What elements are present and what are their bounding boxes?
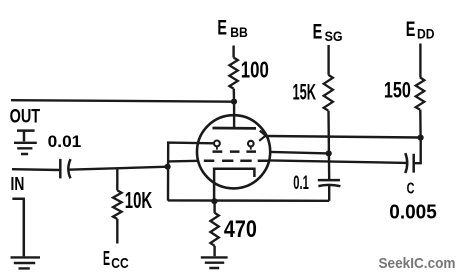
label EDD (406, 18, 435, 41)
svg-text:0.005: 0.005 (389, 201, 437, 224)
IN terminal bar (12, 199, 25, 256)
svg-text:470: 470 (224, 216, 257, 243)
resistor 150 (416, 77, 425, 109)
svg-text:0.1: 0.1 (293, 173, 309, 194)
wire resistor100 to junction (233, 89, 236, 102)
wire EBB lead (232, 46, 234, 58)
ground under 470 (201, 257, 228, 268)
wire OUT line (top horizontal) (11, 100, 234, 102)
svg-text:E: E (406, 18, 416, 41)
svg-text:OUT: OUT (10, 106, 41, 127)
ground IN (11, 257, 41, 268)
svg-text:SeekIC.com: SeekIC.com (379, 255, 456, 272)
resistor 470 (213, 201, 215, 213)
pin circle right (248, 141, 254, 147)
node plate/EBB junction (231, 99, 237, 105)
svg-text:C: C (407, 181, 415, 198)
resistor 10K (116, 168, 118, 190)
svg-text:100: 100 (241, 56, 269, 82)
node cathode junction (211, 198, 217, 204)
wire grid2 left exit (168, 160, 198, 163)
node grid junction (165, 164, 171, 170)
resistor 100 (229, 58, 237, 89)
wire ESG lead (327, 45, 329, 75)
wire grid1 lead (168, 143, 214, 201)
svg-text:BB: BB (230, 24, 248, 40)
wire EDD junction down (413, 138, 421, 164)
op tube envelope U1 (197, 115, 270, 188)
svg-text:IN: IN (11, 174, 25, 194)
wire grid3 to cap C (269, 160, 406, 163)
svg-text:SG: SG (325, 28, 343, 44)
plate bar (213, 127, 257, 130)
svg-text:15K: 15K (293, 80, 317, 105)
pin stub right (250, 147, 252, 150)
wire junction to plate (233, 102, 235, 128)
beam arrow (259, 131, 266, 141)
capacitor 0.1 (318, 180, 341, 186)
node EDD junction (418, 135, 424, 141)
svg-text:DD: DD (417, 25, 435, 41)
svg-text:E: E (217, 16, 227, 39)
pin circle left (214, 141, 220, 147)
svg-text:10K: 10K (125, 187, 153, 213)
resistor 15K (324, 75, 333, 111)
wire screen grid to ESG rail (270, 152, 329, 154)
wire IN line left (12, 168, 59, 171)
wire EDD lead (419, 44, 421, 78)
capacitor 0.01 (60, 159, 70, 179)
OUT terminal bar (17, 131, 35, 142)
ground OUT (14, 143, 37, 154)
wire ESG rail down (327, 111, 330, 181)
svg-text:E: E (313, 21, 323, 44)
grid row 1 dashes (213, 150, 257, 153)
pin stub left (216, 147, 218, 150)
svg-text:CC: CC (111, 255, 129, 272)
grid row 2 dashes (204, 159, 268, 162)
label ESG (313, 21, 343, 44)
wire EDD rail to junction (419, 110, 422, 138)
wire bottom line (168, 199, 329, 202)
label ECC (103, 248, 129, 272)
wire arrow to EDD rail (266, 136, 421, 138)
wire cap 0.1 to bottom line (328, 185, 330, 201)
capacitor C 0.005 (405, 153, 413, 173)
label EBB (217, 16, 247, 39)
cathode (214, 169, 254, 201)
svg-text:150: 150 (384, 77, 411, 102)
wire IN line right (68, 167, 167, 170)
svg-text:0.01: 0.01 (48, 133, 82, 151)
svg-text:E: E (103, 248, 110, 270)
node ESG junction (326, 150, 332, 156)
